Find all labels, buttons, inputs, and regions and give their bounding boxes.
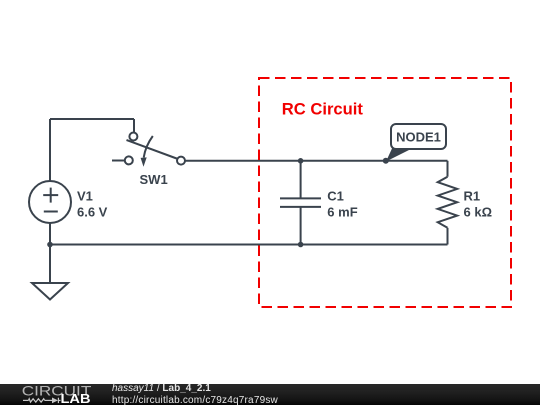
- resistor R1: [438, 177, 458, 228]
- svg-text:6 kΩ: 6 kΩ: [464, 204, 493, 219]
- wire C1 bottom lead: [300, 207, 302, 245]
- wire main horizontal node line: [185, 160, 447, 162]
- wire V1 bottom to ground: [49, 223, 51, 283]
- voltage source V1: [29, 181, 71, 223]
- svg-text:NODE1: NODE1: [396, 130, 441, 145]
- wire right vertical into R1: [447, 161, 449, 177]
- svg-text:6 mF: 6 mF: [327, 204, 357, 219]
- label V1 value: [77, 189, 108, 220]
- svg-text:R1: R1: [464, 188, 481, 203]
- wire R1 bottom lead: [447, 228, 449, 245]
- svg-text:RC Circuit: RC Circuit: [282, 100, 364, 119]
- wire switch top terminal drop: [133, 119, 135, 133]
- wire C1 top lead: [300, 161, 302, 199]
- svg-text:V1: V1: [77, 189, 93, 204]
- wire left vertical down to V1 top: [49, 119, 51, 181]
- switch SW1 arrowhead: [141, 157, 147, 166]
- svg-text:6.6 V: 6.6 V: [77, 205, 108, 220]
- junction at V1 bottom rail: [47, 242, 53, 248]
- svg-text:LAB: LAB: [61, 392, 91, 405]
- label C1 value: [327, 188, 357, 219]
- footer bar: [0, 384, 540, 405]
- svg-text:C1: C1: [327, 188, 344, 203]
- wire switch left open stub: [112, 160, 125, 162]
- ground: [32, 283, 68, 300]
- node NODE1 anchor dot: [383, 158, 389, 164]
- capacitor C1: [280, 198, 321, 207]
- wire bottom return rail: [50, 244, 448, 246]
- wire top-left horizontal from V1 column to switch column: [50, 118, 134, 120]
- label R1 value: [464, 188, 493, 219]
- junction at C1 top: [298, 158, 304, 164]
- region box RC Circuit: [259, 78, 511, 307]
- junction at C1 bottom: [298, 242, 304, 248]
- svg-text:SW1: SW1: [140, 172, 168, 187]
- switch SW1: [125, 133, 185, 165]
- node NODE1 flag: [386, 124, 446, 162]
- CircuitLab logo: [0, 384, 110, 405]
